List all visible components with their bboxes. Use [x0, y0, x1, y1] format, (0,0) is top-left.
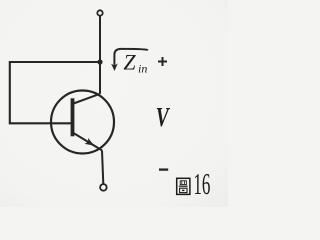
svg-text:Z: Z: [123, 50, 136, 75]
svg-text:16: 16: [193, 167, 210, 201]
svg-text:V: V: [156, 102, 170, 132]
svg-text:in: in: [138, 62, 147, 76]
